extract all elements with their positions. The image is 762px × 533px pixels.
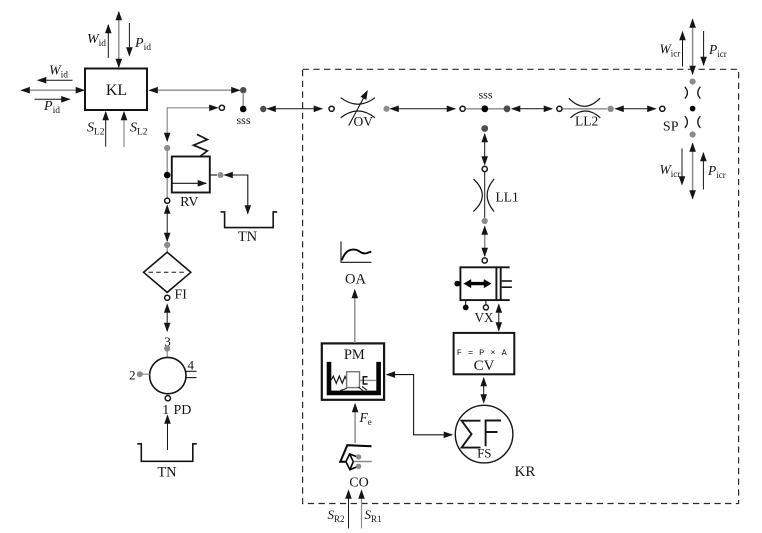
svg-text:SL2: SL2	[130, 121, 148, 138]
label P_id (left)	[43, 99, 60, 116]
label S_R1	[365, 507, 382, 524]
recorder OA (curve)	[341, 242, 372, 263]
spring in PM	[331, 376, 346, 383]
svg-text:OA: OA	[345, 272, 366, 288]
svg-text:SR1: SR1	[365, 507, 382, 524]
hatch marks in PM	[340, 387, 367, 392]
filter FI (diamond)	[144, 252, 191, 292]
block KL	[85, 69, 147, 111]
node RV left (black)	[164, 172, 171, 179]
svg-text:Fe: Fe	[359, 410, 372, 427]
label sss2	[478, 88, 492, 102]
svg-text:Wid: Wid	[49, 64, 68, 81]
restrictor LL1	[473, 172, 494, 218]
svg-text:Wicr: Wicr	[660, 42, 681, 59]
arrow S_R1	[361, 491, 363, 529]
arrow S_R2	[348, 491, 350, 529]
label 1 PD	[162, 403, 191, 418]
wire: double arrow to LL1 port	[484, 134, 486, 165]
node LL1 bottom (gray)	[482, 218, 488, 224]
label KR	[515, 464, 536, 480]
arrow W_id left (left of KL)	[38, 79, 73, 81]
shaft lines port 4	[185, 371, 197, 377]
label FI	[175, 288, 188, 303]
stub and node VX bottom left (black)	[463, 300, 469, 310]
node FI top (gray)	[164, 242, 170, 248]
arrow P_id down (top of KL)	[128, 23, 130, 56]
arrow S_L2 second (below KL)	[123, 112, 125, 147]
label S_R2	[328, 507, 345, 524]
wire FI stub	[166, 245, 168, 253]
port open circle LL1 top	[482, 166, 487, 171]
svg-text:SP: SP	[663, 120, 679, 135]
flapper CO	[340, 445, 372, 470]
label S_L2 first	[87, 121, 105, 138]
wire node3 to PD	[166, 349, 168, 358]
arrow P_icr up (bottom right)	[702, 153, 704, 190]
label VX	[474, 310, 494, 325]
svg-text:F = P × A: F = P × A	[457, 348, 508, 358]
arrow W_id up (top of KL)	[107, 25, 109, 58]
svg-text:LL1: LL1	[496, 190, 519, 205]
port open circle VX top	[482, 258, 487, 263]
label LL1	[496, 190, 519, 205]
port open circle LL2 left	[557, 106, 562, 111]
svg-text:CV: CV	[474, 358, 495, 374]
label S_L2 second	[130, 121, 148, 138]
svg-text:sss: sss	[236, 113, 250, 127]
svg-text:PD: PD	[174, 403, 192, 418]
label W_icr (top right)	[660, 42, 681, 59]
svg-text:OV: OV	[354, 114, 374, 129]
svg-text:sss: sss	[478, 88, 492, 102]
arrow TN to PD suction	[167, 416, 169, 451]
label W_id (left)	[49, 64, 68, 81]
svg-text:2: 2	[129, 368, 136, 383]
svg-text:TN: TN	[238, 229, 258, 245]
arrow P_icr down (top right)	[703, 31, 705, 65]
stub and port VX bottom right	[483, 300, 488, 310]
wire: double arrow OV to sss2	[391, 108, 456, 110]
svg-text:CO: CO	[349, 476, 368, 491]
node RV right (gray)	[218, 172, 224, 178]
node 2 (gray)	[137, 371, 143, 377]
svg-text:Pid: Pid	[43, 99, 60, 116]
damper in PM	[363, 377, 367, 384]
arrow F_e into PM	[354, 404, 356, 443]
wire RV left segment	[166, 148, 168, 198]
svg-text:1: 1	[162, 403, 169, 418]
arrow P_id right (left of KL)	[35, 98, 70, 100]
arrow W_icr down (bottom right)	[681, 149, 683, 185]
valve RV	[172, 157, 210, 193]
tank TN (lower)	[137, 444, 197, 481]
svg-text:Pid: Pid	[134, 36, 151, 53]
pump PD (circle)	[150, 357, 186, 393]
svg-text:VX: VX	[474, 310, 494, 325]
port open circle (branch)	[219, 105, 224, 110]
label P_icr (bottom right)	[707, 163, 726, 180]
spring of RV	[194, 134, 208, 156]
svg-text:KL: KL	[106, 82, 127, 99]
wire: L link FS to PM	[387, 375, 452, 435]
node RV top (gray)	[164, 145, 170, 151]
svg-text:TN: TN	[157, 465, 177, 481]
port open circle PD bottom (1)	[165, 396, 170, 401]
svg-text:FS: FS	[477, 446, 491, 461]
label P_icr (top right)	[708, 42, 727, 59]
svg-text:Picr: Picr	[707, 163, 726, 180]
cup of PM	[329, 362, 379, 393]
label sss	[236, 113, 250, 127]
node sss2 right (dark gray)	[504, 105, 511, 112]
node right of sss (dark gray)	[260, 106, 266, 112]
port open circle OV left	[329, 106, 334, 111]
svg-text:Picr: Picr	[708, 42, 727, 59]
wire: double arrow sss2 to LL2	[512, 108, 552, 110]
wire sss drop	[242, 93, 244, 107]
label W_id (top)	[87, 32, 106, 49]
valve OV (variable restrictor)	[341, 91, 375, 126]
wire: double arrow VX to CV	[498, 305, 500, 331]
svg-text:KR: KR	[515, 464, 536, 480]
port open circle FI bottom	[165, 295, 170, 300]
wire sss2 left	[466, 108, 505, 110]
node SP top (gray)	[690, 79, 696, 85]
wire RV right stub	[210, 174, 217, 176]
svg-text:Wid: Wid	[87, 32, 106, 49]
node LL2 right (gray)	[607, 106, 613, 112]
restrictor LL2	[563, 98, 608, 118]
block CV	[454, 333, 515, 374]
svg-text:RV: RV	[180, 195, 198, 210]
node 3 (gray)	[164, 345, 170, 351]
node above sss (gray)	[240, 87, 246, 93]
node sss (black)	[240, 106, 247, 113]
svg-text:LL2: LL2	[575, 114, 598, 129]
port open circle below RV	[165, 198, 170, 203]
arrow W_icr up (top right)	[682, 32, 684, 67]
wire: double arrow RV to FI	[166, 206, 168, 242]
label CO	[349, 476, 368, 491]
mass in PM	[347, 372, 360, 388]
label 2	[129, 368, 136, 383]
rod in PM	[360, 379, 376, 381]
node OV right (gray)	[383, 106, 389, 112]
svg-text:FI: FI	[175, 288, 188, 303]
summator FS	[455, 405, 513, 463]
label OA	[345, 272, 366, 288]
dashed boundary KR region	[303, 69, 739, 503]
node below sss2 (dark gray)	[481, 125, 488, 132]
node sss2 (black)	[481, 105, 488, 112]
wire node2 to PD	[143, 373, 150, 375]
wire: double arrow CV to FS	[483, 378, 485, 403]
label RV	[180, 195, 198, 210]
label F_e	[359, 410, 372, 427]
svg-text:SR2: SR2	[328, 507, 345, 524]
arrow S_L2 first (below KL)	[105, 112, 107, 147]
wire: double arrow SP down	[692, 144, 694, 199]
label OV	[354, 114, 374, 129]
svg-text:4: 4	[187, 358, 194, 373]
node SP center (black)	[690, 106, 696, 112]
node VX left (black)	[454, 281, 460, 287]
wire: double arrow FI to node 3	[166, 305, 168, 332]
wire branch to RV (corner with two arrows)	[167, 107, 217, 141]
wire: double arrow sss to OV	[268, 108, 323, 110]
label W_icr (bottom right)	[660, 162, 681, 179]
svg-text:Wicr: Wicr	[660, 162, 681, 179]
port open circle SP left	[660, 106, 665, 111]
tank TN (upper)	[221, 212, 278, 245]
label LL2	[575, 114, 598, 129]
wire: double arrow above KL	[118, 12, 120, 67]
wire: double arrow KL to sss node	[150, 89, 240, 91]
block PM	[322, 343, 384, 399]
label SP	[663, 120, 679, 135]
wire: double arrow LL1 to VX	[484, 227, 486, 257]
wire: double arrow LL2 to SP	[616, 108, 656, 110]
node SP bottom (gray)	[690, 131, 696, 137]
wire PM to OA	[354, 290, 356, 343]
label 4	[187, 358, 194, 373]
label P_id (top)	[134, 36, 151, 53]
wire: double arrow SP up through boundary	[692, 20, 694, 75]
svg-text:SL2: SL2	[87, 121, 105, 138]
port open circle sss2 left	[460, 106, 465, 111]
nozzle SP	[685, 87, 701, 128]
label node 3	[164, 334, 171, 349]
wire RV to TN drain	[225, 175, 248, 214]
svg-text:PM: PM	[344, 347, 365, 363]
wire: double arrow left of KL	[22, 89, 85, 91]
cylinder VX	[460, 266, 512, 301]
